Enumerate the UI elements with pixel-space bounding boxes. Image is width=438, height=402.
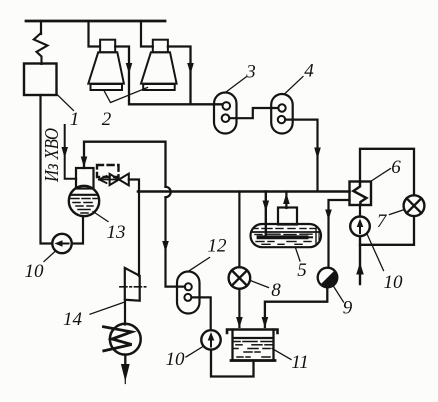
pointer to label 3: [226, 77, 246, 92]
pointer to label 6: [372, 169, 391, 181]
pointer to label 11: [272, 349, 291, 360]
control valve (bowtie): [110, 174, 119, 185]
wire: vessel 12 to pump 10 bottom: [191, 297, 210, 330]
flask 2b neck: [153, 40, 168, 53]
svg-text:7: 7: [377, 211, 388, 232]
deaerator tank 13: [69, 186, 99, 216]
svg-text:11: 11: [291, 352, 309, 373]
pointer to label 10 right: [367, 234, 384, 271]
vessel 3 upper port: [223, 102, 231, 110]
tank 11 bottom: [231, 359, 275, 362]
water level in tank 11: [234, 337, 273, 339]
vessel 4 (capsule): [271, 94, 293, 134]
svg-text:3: 3: [245, 62, 256, 83]
wire: regulator 9 to tank 11: [265, 287, 327, 327]
vessel 12 lower port: [184, 294, 191, 301]
circulation loop wire bottom: [360, 216, 414, 245]
arrow into head from control valve: [99, 176, 119, 183]
circulation loop wire top: [360, 149, 414, 196]
pointer to label 10 left: [44, 251, 56, 262]
turbine shaft axis dash-dot: [120, 286, 146, 288]
wire: header to flask 2b: [141, 21, 153, 47]
flexible zigzag insert above apparatus 1: [34, 33, 48, 64]
arrow down on flask 2a outlet: [126, 63, 133, 74]
arrow up on vent: [283, 193, 290, 204]
flask 2b body: [141, 52, 177, 83]
vessel 4 upper port: [278, 104, 285, 111]
svg-text:12: 12: [208, 236, 228, 257]
svg-text:2: 2: [102, 109, 112, 130]
steam box on tank 5: [278, 208, 297, 225]
svg-text:6: 6: [391, 157, 401, 178]
pump 10 left (circle with left arrow): [52, 234, 71, 253]
pointer to label 4: [285, 77, 303, 94]
pump 10 bottom (circle with up arrow): [201, 330, 220, 349]
heater 6 coil: [353, 182, 366, 206]
pointer lines to label 2: [104, 88, 148, 103]
vessel 3 lower port: [222, 114, 230, 122]
condenser (circle with coil): [110, 324, 141, 355]
water shading in tank 13: [71, 199, 97, 214]
vent wire from box of tank 5: [285, 192, 287, 209]
flash tank 5 (horizontal capsule): [251, 224, 322, 247]
turbine 14: [125, 268, 140, 301]
pointer to label 10 bottom: [186, 347, 203, 358]
heater 6 (box): [350, 182, 372, 206]
wire: flask 2a outlet down to condensate line: [115, 47, 222, 105]
wire: hop down to vessel 12: [166, 197, 186, 286]
distribution pipe in tank 5: [259, 235, 307, 239]
svg-text:10: 10: [384, 272, 404, 293]
flask 2a neck: [100, 40, 115, 53]
feedwater wire into pump 10 right: [359, 236, 361, 284]
water level in tank 13: [71, 194, 98, 196]
arrow down on steam supply: [61, 147, 68, 158]
flask 2a base: [91, 84, 123, 90]
pointer to label 9: [333, 286, 344, 303]
water level in tank 5: [253, 231, 320, 233]
svg-text:9: 9: [343, 298, 353, 319]
wire: vessel 4 drain to main header: [285, 120, 317, 191]
pointer to label 14: [90, 302, 125, 314]
actuator dashed box: [97, 165, 119, 177]
wire: header into flash tank 5: [265, 192, 267, 237]
recirculation wire to deaerator head: [84, 142, 166, 187]
wire: condenser outlet: [124, 355, 126, 365]
pointer to label 13: [93, 212, 108, 222]
wire: valve to turbine riser: [129, 180, 139, 276]
svg-text:14: 14: [63, 309, 83, 330]
flow device 7 (circle with X): [404, 195, 425, 216]
wire: vessel 3 to vessel 4: [229, 108, 278, 118]
wire: valve 8 to tank 11: [238, 289, 240, 327]
wire: header down to valve 8: [238, 192, 240, 268]
tank 11 walls: [233, 330, 274, 361]
arrow down on vessel 4 drain: [314, 148, 321, 160]
svg-text:4: 4: [304, 61, 314, 82]
condensate wire from heater 6 down to regulator 9: [329, 200, 350, 268]
pointer to label 12: [188, 258, 210, 272]
water shading in tank 5: [253, 229, 316, 245]
hop crossing of recirc line over header: [166, 187, 171, 197]
regulator 9 (half filled circle): [318, 268, 338, 288]
valve 8 (circle with X): [229, 267, 251, 289]
apparatus 1 (box): [24, 64, 57, 96]
vessel 4 lower port: [278, 116, 285, 123]
wire: apparatus 1 down to pump 10 left: [41, 95, 53, 244]
arrow down into tank 5: [263, 201, 270, 212]
svg-text:1: 1: [70, 109, 80, 130]
svg-text:13: 13: [107, 222, 126, 243]
arrow into tank 11 left: [236, 317, 243, 328]
arrow down into deaerator head: [81, 157, 88, 168]
steam supply wire to deaerator head: [65, 125, 77, 179]
vessel 3 (capsule): [214, 93, 237, 134]
top steam header wire: [26, 20, 165, 23]
pump 10 right (circle with up arrow): [350, 217, 370, 237]
pointer to label 5: [296, 248, 301, 261]
main lower header wire: [138, 190, 350, 193]
wire: header down to flexible insert: [40, 21, 42, 34]
arrow down on flask 2b outlet: [187, 63, 194, 74]
vessel 12 upper port: [185, 283, 192, 290]
arrow up on feedwater wire: [356, 263, 364, 275]
svg-text:10: 10: [25, 261, 45, 282]
svg-text:8: 8: [271, 280, 281, 301]
condenser coil: [104, 327, 132, 351]
flask 2b base: [143, 84, 175, 90]
pointer line to label 1: [57, 94, 74, 111]
wire: pump 10 bottom suction from tank 11: [211, 350, 254, 377]
svg-text:Из ХВО: Из ХВО: [41, 128, 63, 183]
svg-text:10: 10: [166, 349, 186, 370]
arrow down after hop: [162, 241, 169, 252]
wire: turbine exhaust to condenser: [124, 301, 126, 325]
wire: tank 13 down to pump 10 left: [72, 216, 83, 244]
wire: header to flask 2a: [89, 21, 101, 47]
vessel 12 (capsule): [177, 272, 200, 314]
svg-text:5: 5: [297, 260, 307, 281]
water shading in tank 11: [234, 342, 272, 358]
wire: heater 6 to pump 10 right: [359, 205, 361, 217]
pointer to label 8: [250, 281, 268, 288]
tank 11 rim: [227, 330, 278, 334]
pointer to label 7: [390, 210, 405, 215]
arrow into tank 11 right: [262, 317, 269, 328]
wire: flask 2b outlet down: [168, 47, 191, 104]
arrow down to regulator 9: [325, 210, 332, 221]
flask 2a body: [88, 52, 124, 83]
deaerator head 13: [76, 168, 94, 189]
arrow down at condenser outlet: [121, 364, 130, 382]
